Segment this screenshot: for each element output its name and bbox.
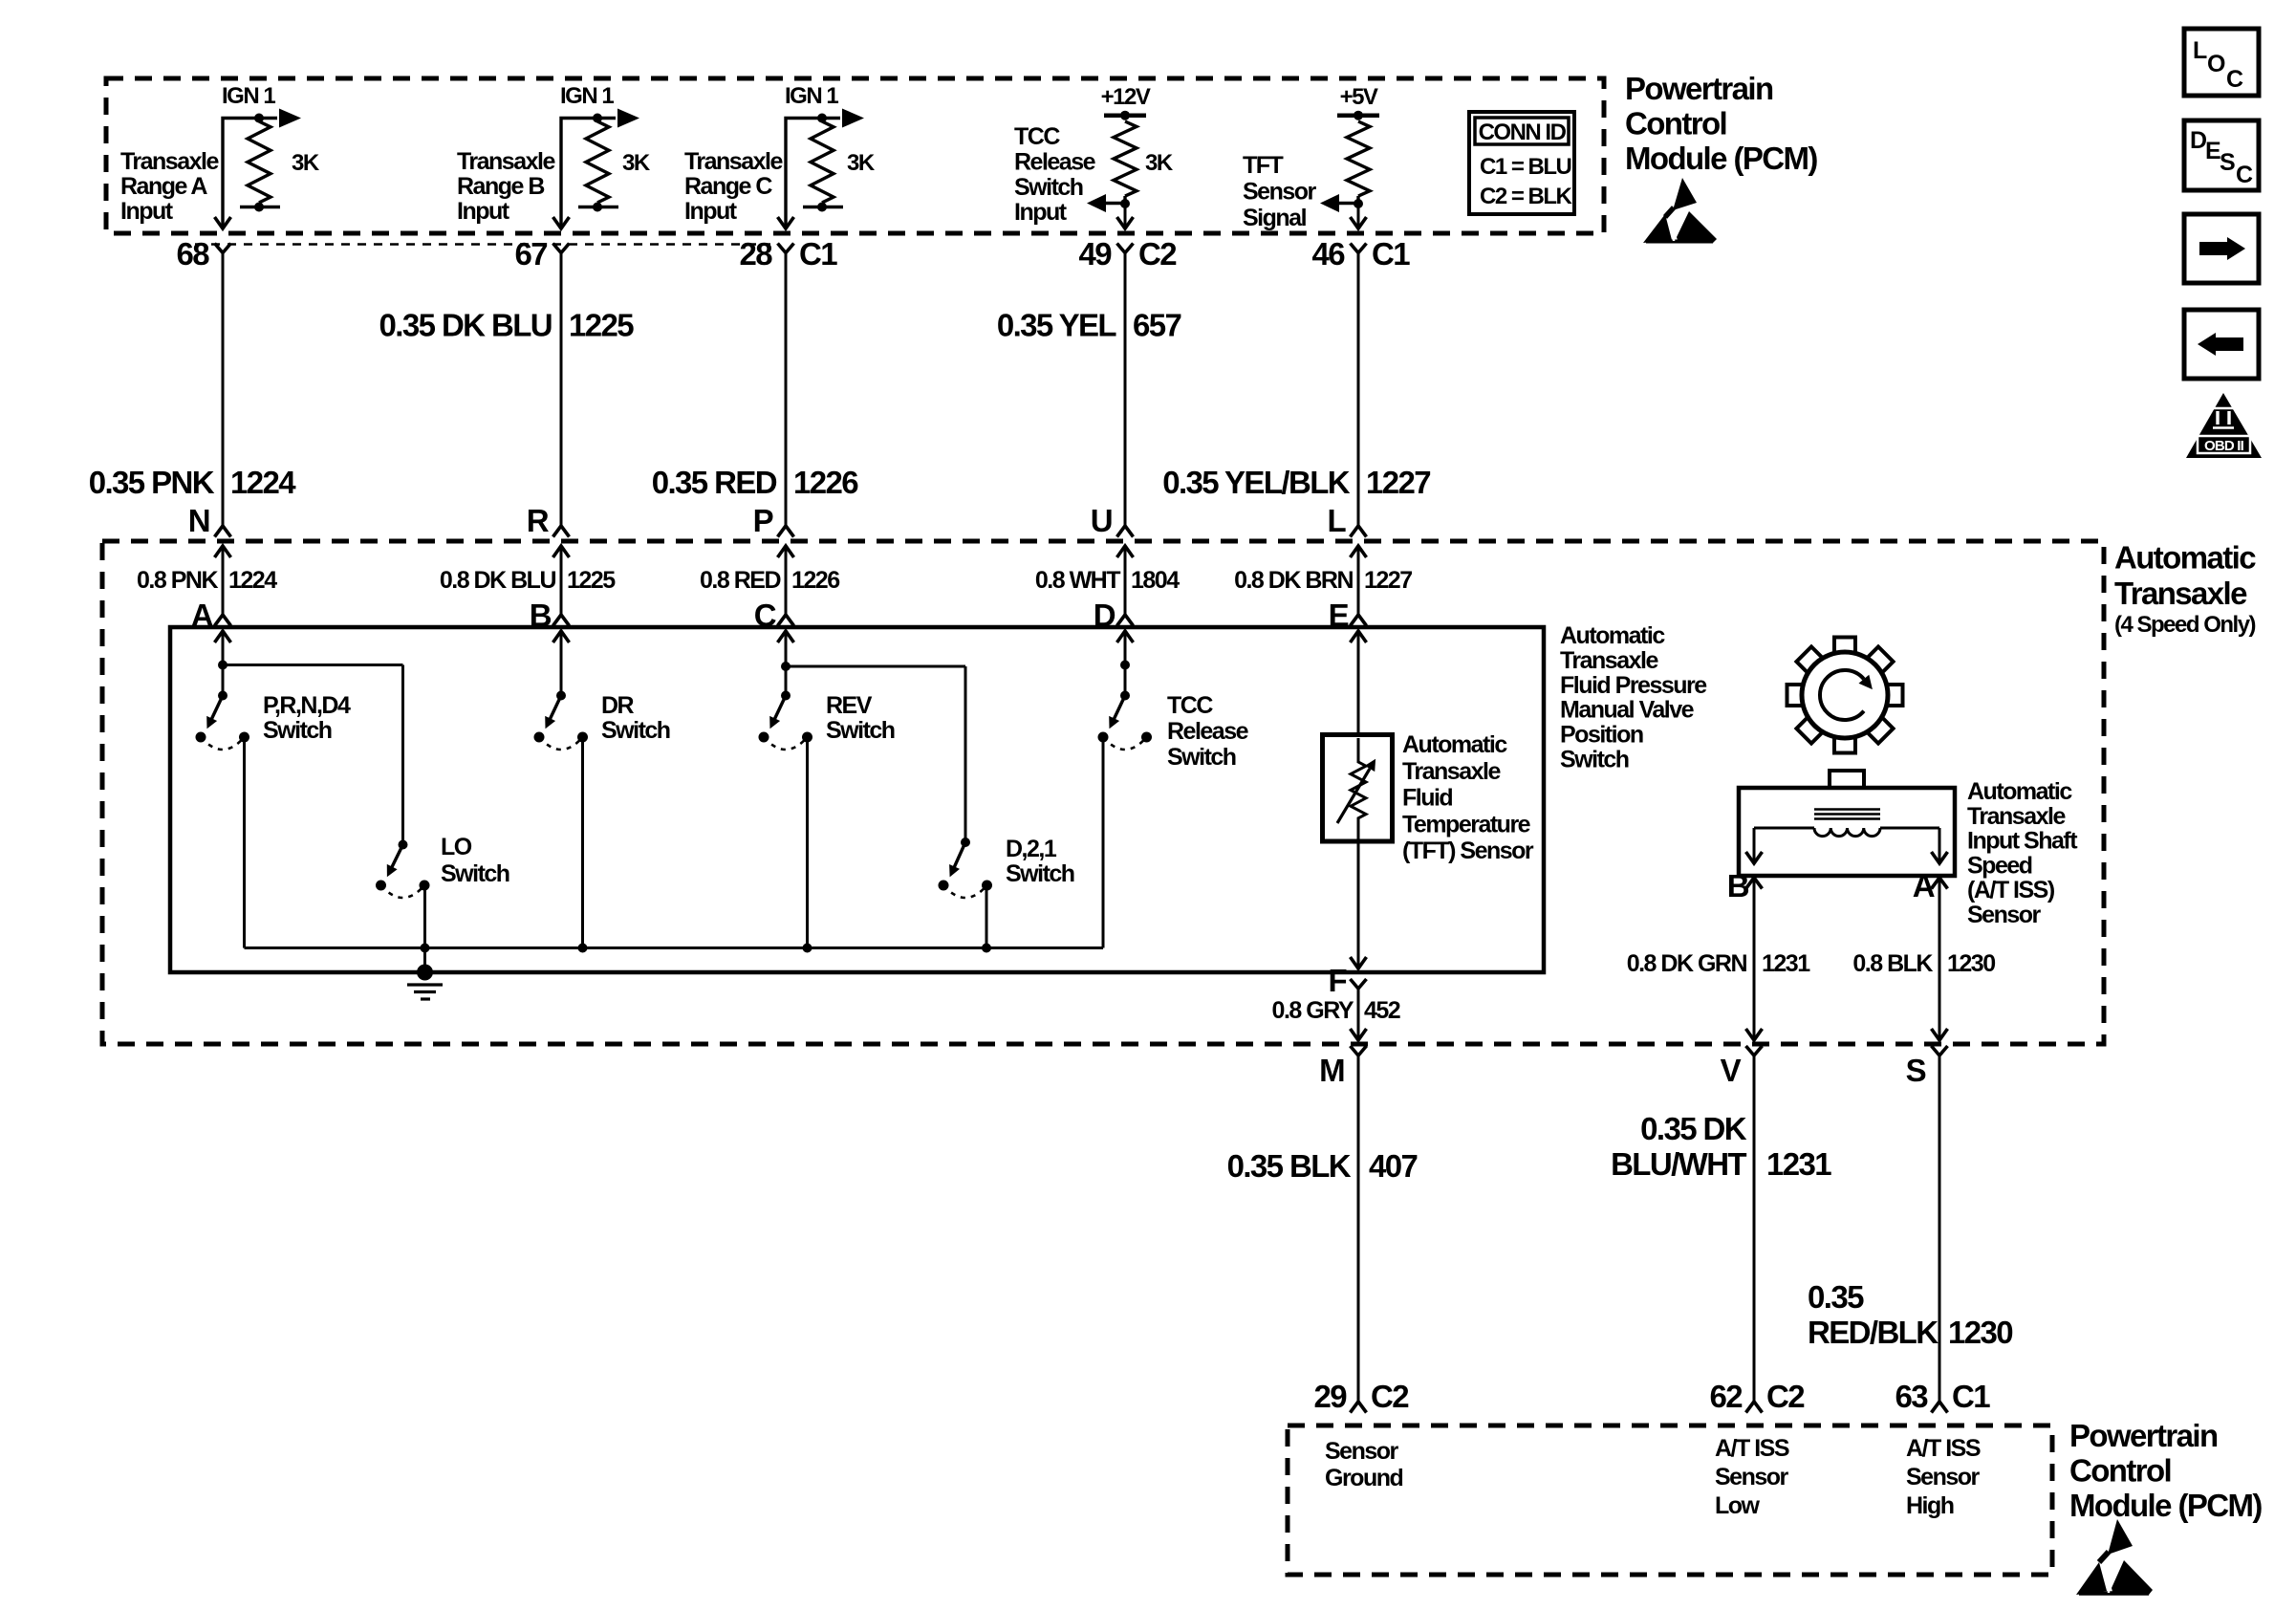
svg-text:TCC: TCC bbox=[1167, 692, 1213, 719]
switch TCC release bbox=[1120, 691, 1130, 701]
wire LO output to bus and ground bbox=[423, 885, 426, 972]
right-arrow icon box bbox=[2184, 214, 2259, 283]
svg-text:C: C bbox=[2226, 66, 2243, 93]
svg-text:Transaxle: Transaxle bbox=[120, 148, 219, 175]
junction dot col C branch bbox=[781, 662, 791, 671]
svg-text:1231: 1231 bbox=[1762, 950, 1810, 977]
svg-text:Sensor: Sensor bbox=[1967, 902, 2042, 928]
svg-text:TCC: TCC bbox=[1014, 123, 1060, 150]
svg-text:C1: C1 bbox=[1372, 236, 1410, 272]
svg-text:Switch: Switch bbox=[263, 717, 332, 744]
svg-text:Input Shaft: Input Shaft bbox=[1967, 828, 2078, 855]
svg-text:3K: 3K bbox=[847, 150, 876, 176]
pin 63 C1 fork bbox=[1932, 1402, 1948, 1413]
terminal fork at transaxle box (col 46) bbox=[1351, 526, 1367, 537]
svg-text:0.8 GRY: 0.8 GRY bbox=[1272, 997, 1354, 1024]
svg-text:1226: 1226 bbox=[791, 567, 839, 594]
switch D,2,1 bbox=[961, 838, 970, 847]
svg-text:1226: 1226 bbox=[793, 465, 858, 500]
wire IGN1 elbow col C bbox=[786, 119, 840, 228]
svg-text:Automatic: Automatic bbox=[1967, 778, 2072, 805]
svg-text:A/T ISS: A/T ISS bbox=[1715, 1435, 1789, 1462]
pin 28 C1 fork bbox=[778, 244, 794, 253]
wire branch to D,2,1 switch bbox=[786, 665, 965, 668]
svg-text:BLU/WHT: BLU/WHT bbox=[1611, 1146, 1746, 1182]
svg-text:Range B: Range B bbox=[457, 173, 544, 200]
terminal fork at transaxle box (col 49) bbox=[1117, 526, 1134, 537]
svg-text:LO: LO bbox=[441, 834, 472, 860]
svg-text:REV: REV bbox=[826, 692, 873, 719]
svg-text:C2: C2 bbox=[1138, 236, 1177, 272]
svg-text:3K: 3K bbox=[1145, 150, 1174, 176]
junction dot D21-bus bbox=[982, 944, 991, 953]
svg-text:C2 = BLK: C2 = BLK bbox=[1480, 184, 1573, 209]
arrow to TCC release switch input (left) bbox=[1105, 202, 1125, 205]
terminal fork at transaxle box (col 28) bbox=[778, 526, 794, 537]
svg-text:Transaxle: Transaxle bbox=[2114, 576, 2247, 611]
wire branch to LO switch bbox=[223, 664, 403, 666]
wire D,2,1 output to bus bbox=[986, 885, 988, 948]
svg-text:0.35 DK: 0.35 DK bbox=[1640, 1111, 1747, 1146]
wire down col E bbox=[1357, 204, 1360, 228]
pin 49 C2 fork bbox=[1117, 244, 1134, 253]
ground bus wire bbox=[245, 946, 1104, 949]
svg-text:Position: Position bbox=[1560, 722, 1643, 749]
svg-text:IGN 1: IGN 1 bbox=[785, 83, 838, 109]
junction dot col D bbox=[1120, 661, 1130, 670]
wire TFT down to F bbox=[1357, 838, 1360, 968]
junction dot col D bbox=[1120, 199, 1130, 208]
svg-text:D,2,1: D,2,1 bbox=[1006, 836, 1057, 862]
svg-text:28: 28 bbox=[739, 236, 772, 272]
svg-text:(TFT) Sensor: (TFT) Sensor bbox=[1402, 838, 1534, 864]
svg-text:0.35 PNK: 0.35 PNK bbox=[89, 465, 215, 500]
wire down col D bbox=[1124, 204, 1127, 228]
wire col A down to switch bbox=[222, 631, 225, 696]
svg-text:Fluid Pressure: Fluid Pressure bbox=[1560, 672, 1707, 699]
OBD II icon bbox=[2186, 393, 2262, 458]
svg-text:Switch: Switch bbox=[441, 860, 509, 887]
junction dot LO-bus bbox=[421, 944, 430, 953]
svg-text:+5V: +5V bbox=[1340, 84, 1378, 110]
svg-text:Sensor: Sensor bbox=[1906, 1464, 1981, 1490]
svg-text:P: P bbox=[753, 503, 773, 538]
svg-text:Switch: Switch bbox=[1014, 174, 1083, 201]
svg-text:IGN 1: IGN 1 bbox=[222, 83, 275, 109]
arrow up into switch assembly (col D) bbox=[1117, 631, 1134, 642]
svg-text:Control: Control bbox=[2069, 1453, 2171, 1489]
terminal bar +12V bbox=[1104, 113, 1146, 118]
svg-text:C1: C1 bbox=[1952, 1379, 1990, 1414]
arrow down at transaxle box exit (M) bbox=[1357, 1004, 1360, 1040]
svg-text:C: C bbox=[2236, 162, 2253, 188]
arrow to IGN1 feed col C bbox=[842, 109, 864, 128]
gear icon (input shaft) bbox=[1787, 638, 1903, 753]
TFT sensor box bbox=[1323, 735, 1393, 842]
svg-text:S: S bbox=[1906, 1053, 1926, 1088]
svg-text:Fluid: Fluid bbox=[1402, 785, 1452, 812]
svg-text:0.35 DK BLU: 0.35 DK BLU bbox=[379, 308, 552, 343]
junction dot col B bbox=[593, 114, 602, 123]
svg-text:C1: C1 bbox=[799, 236, 837, 272]
svg-text:0.35 BLK: 0.35 BLK bbox=[1227, 1148, 1352, 1184]
svg-text:452: 452 bbox=[1364, 997, 1400, 1024]
svg-text:Ground: Ground bbox=[1325, 1465, 1402, 1491]
svg-text:U: U bbox=[1091, 503, 1112, 538]
junction dot col A branch bbox=[218, 661, 227, 670]
svg-text:Sensor: Sensor bbox=[1325, 1438, 1399, 1465]
svg-text:1230: 1230 bbox=[1947, 950, 1995, 977]
arrow to IGN1 feed col B bbox=[617, 109, 639, 128]
svg-text:Temperature: Temperature bbox=[1402, 811, 1531, 838]
svg-text:Module (PCM): Module (PCM) bbox=[2069, 1488, 2262, 1523]
svg-text:TFT: TFT bbox=[1243, 152, 1284, 179]
svg-text:0.8 BLK: 0.8 BLK bbox=[1852, 950, 1933, 977]
svg-text:Transaxle: Transaxle bbox=[457, 148, 555, 175]
ISS pickup coil bbox=[1814, 828, 1880, 837]
svg-text:L: L bbox=[2193, 37, 2207, 64]
svg-text:O: O bbox=[2207, 51, 2225, 77]
svg-text:S: S bbox=[2220, 149, 2235, 176]
wire pin 49 down to transaxle bbox=[1124, 253, 1127, 527]
wire B down (0.8 DK GRN) bbox=[1753, 878, 1756, 1040]
svg-text:3K: 3K bbox=[622, 150, 651, 176]
svg-text:Speed: Speed bbox=[1967, 852, 2032, 879]
svg-text:0.8 DK BRN: 0.8 DK BRN bbox=[1234, 567, 1353, 594]
svg-text:Release: Release bbox=[1167, 718, 1249, 745]
svg-text:1230: 1230 bbox=[1948, 1315, 2012, 1350]
svg-text:0.35 RED: 0.35 RED bbox=[652, 465, 777, 500]
resistor 3K col D bbox=[1114, 121, 1137, 196]
pin 62 C2 fork bbox=[1746, 1402, 1763, 1413]
resistor 3K col B bbox=[586, 121, 609, 203]
svg-text:N: N bbox=[188, 503, 209, 538]
arrow down through PCM edge col B bbox=[553, 217, 570, 228]
A/T ISS sensor box bbox=[1739, 788, 1955, 876]
svg-text:DR: DR bbox=[601, 692, 635, 719]
wire pin 67 down to transaxle bbox=[560, 253, 563, 527]
ESD symbol - bottom PCM bbox=[2076, 1519, 2153, 1595]
arrow up into transaxle (col E) bbox=[1351, 546, 1367, 557]
svg-text:Switch: Switch bbox=[1167, 744, 1236, 771]
svg-text:C1 = BLU: C1 = BLU bbox=[1480, 154, 1571, 180]
ISS sensor mounting tab bbox=[1830, 771, 1864, 788]
pin 29 C2 fork bbox=[1351, 1402, 1367, 1413]
pin 67 fork bbox=[553, 244, 570, 253]
svg-text:63: 63 bbox=[1895, 1379, 1928, 1414]
svg-text:1231: 1231 bbox=[1766, 1146, 1831, 1182]
terminal fork at transaxle box (col 68) bbox=[215, 526, 231, 537]
wire TCC left contact down to bus end bbox=[1102, 737, 1105, 948]
svg-text:Release: Release bbox=[1014, 148, 1096, 175]
arrow down through PCM edge col A bbox=[215, 217, 231, 228]
svg-text:A: A bbox=[1913, 868, 1935, 903]
svg-text:Powertrain: Powertrain bbox=[2069, 1418, 2218, 1453]
svg-text:29: 29 bbox=[1313, 1379, 1347, 1414]
svg-text:L: L bbox=[1327, 503, 1346, 538]
ground symbol bbox=[417, 965, 433, 981]
wire IGN1 elbow col B bbox=[561, 119, 616, 228]
svg-text:Switch: Switch bbox=[826, 717, 895, 744]
arrow up into transaxle (col B) bbox=[553, 546, 570, 557]
wire col C down to switch bbox=[785, 631, 788, 696]
svg-text:Switch: Switch bbox=[601, 717, 670, 744]
wire IGN1 elbow col A bbox=[223, 119, 277, 228]
junction dot col E bbox=[1354, 199, 1363, 208]
switch assembly box bbox=[170, 627, 1544, 972]
arrow down through PCM edge col C bbox=[778, 217, 794, 228]
svg-text:Range A: Range A bbox=[120, 173, 207, 200]
terminal bar +5V bbox=[1337, 113, 1379, 118]
svg-text:B: B bbox=[1727, 868, 1749, 903]
svg-text:(4 Speed Only): (4 Speed Only) bbox=[2114, 612, 2256, 638]
svg-text:0.35 YEL: 0.35 YEL bbox=[997, 308, 1117, 343]
arrow up into switch assembly (col C) bbox=[778, 631, 794, 642]
DESC icon box bbox=[2184, 120, 2259, 190]
wire col B down to switch bbox=[560, 631, 563, 696]
thermistor symbol TFT bbox=[1351, 738, 1366, 838]
svg-text:49: 49 bbox=[1078, 236, 1112, 272]
ISS internal wires to pins bbox=[1754, 827, 1814, 830]
arrow to IGN1 feed col A bbox=[279, 109, 301, 128]
svg-text:CONN ID: CONN ID bbox=[1479, 120, 1567, 145]
wire pin 28 down to transaxle bbox=[785, 253, 788, 527]
PCM box (top) - dashed outline bbox=[106, 78, 1604, 233]
CONN ID table bbox=[1469, 112, 1574, 214]
svg-text:Range C: Range C bbox=[684, 173, 772, 200]
svg-text:A/T ISS: A/T ISS bbox=[1906, 1435, 1981, 1462]
svg-text:1224: 1224 bbox=[228, 567, 277, 594]
svg-text:+12V: +12V bbox=[1101, 84, 1151, 110]
resistor 3K col A bbox=[248, 121, 271, 203]
svg-text:R: R bbox=[527, 503, 550, 538]
svg-text:Control: Control bbox=[1625, 106, 1726, 141]
svg-text:68: 68 bbox=[176, 236, 209, 272]
svg-text:D: D bbox=[2190, 127, 2206, 154]
arrow up into switch assembly (col A) bbox=[215, 631, 231, 642]
svg-text:V: V bbox=[1721, 1053, 1742, 1088]
svg-text:C2: C2 bbox=[1766, 1379, 1805, 1414]
wire DR output to bus bbox=[581, 737, 584, 948]
arrow up into transaxle (col C) bbox=[778, 546, 794, 557]
LOC icon box bbox=[2184, 29, 2259, 96]
arrow up into switch assembly (col B) bbox=[553, 631, 570, 642]
connector C1 boundary (thin dashed line) bbox=[195, 243, 770, 246]
svg-text:Module (PCM): Module (PCM) bbox=[1625, 141, 1817, 176]
arrow up into switch assembly (col E) bbox=[1351, 631, 1367, 642]
svg-text:P,R,N,D4: P,R,N,D4 bbox=[263, 692, 351, 719]
svg-text:1225: 1225 bbox=[567, 567, 616, 594]
svg-text:Automatic: Automatic bbox=[1560, 622, 1665, 649]
terminal fork at transaxle box (col 67) bbox=[553, 526, 570, 537]
svg-text:C2: C2 bbox=[1371, 1379, 1409, 1414]
switch DR bbox=[556, 691, 566, 701]
rotation arrow inside gear bbox=[1820, 670, 1864, 720]
svg-text:Input: Input bbox=[1014, 199, 1068, 226]
svg-text:Input: Input bbox=[684, 198, 738, 225]
svg-text:High: High bbox=[1906, 1492, 1954, 1519]
junction dot REV-bus bbox=[803, 944, 812, 953]
svg-text:Transaxle: Transaxle bbox=[1402, 758, 1501, 785]
svg-text:62: 62 bbox=[1709, 1379, 1743, 1414]
svg-text:0.8 RED: 0.8 RED bbox=[700, 567, 780, 594]
svg-text:46: 46 bbox=[1311, 236, 1345, 272]
pin 68 fork bbox=[215, 244, 231, 253]
svg-text:1224: 1224 bbox=[230, 465, 296, 500]
svg-text:F: F bbox=[1328, 963, 1346, 998]
arrow to TFT sensor signal (left) bbox=[1338, 202, 1358, 205]
svg-text:Transaxle: Transaxle bbox=[1560, 647, 1658, 674]
wire pin 68 down to transaxle bbox=[222, 253, 225, 527]
arrow up into transaxle (col D) bbox=[1117, 546, 1134, 557]
junction dot DR-bus bbox=[578, 944, 588, 953]
svg-text:(A/T ISS): (A/T ISS) bbox=[1967, 877, 2055, 903]
svg-text:Input: Input bbox=[457, 198, 510, 225]
Automatic Transaxle box - dashed outline bbox=[102, 541, 2104, 1044]
arrow up into transaxle (col A) bbox=[215, 546, 231, 557]
svg-text:OBD II: OBD II bbox=[2204, 438, 2244, 454]
svg-text:0.8 DK GRN: 0.8 DK GRN bbox=[1627, 950, 1747, 977]
wire col D down to switch bbox=[1124, 631, 1127, 696]
svg-text:Switch: Switch bbox=[1560, 747, 1629, 773]
svg-text:E: E bbox=[2205, 138, 2220, 164]
wire V down to PCM bbox=[1753, 1055, 1756, 1402]
svg-text:1225: 1225 bbox=[569, 308, 634, 343]
svg-text:Low: Low bbox=[1715, 1492, 1761, 1519]
ESD symbol - top PCM bbox=[1643, 178, 1717, 243]
svg-text:Switch: Switch bbox=[1006, 860, 1074, 887]
svg-text:RED/BLK: RED/BLK bbox=[1808, 1315, 1939, 1350]
ISS core laminations bbox=[1814, 808, 1880, 811]
pin 46 C1 fork bbox=[1351, 244, 1367, 253]
svg-text:0.8 WHT: 0.8 WHT bbox=[1035, 567, 1120, 594]
svg-text:1227: 1227 bbox=[1364, 567, 1412, 594]
svg-text:Automatic: Automatic bbox=[1402, 731, 1507, 758]
svg-text:Powertrain: Powertrain bbox=[1625, 71, 1773, 106]
svg-text:Input: Input bbox=[120, 198, 174, 225]
svg-text:Automatic: Automatic bbox=[2114, 540, 2256, 576]
switch REV bbox=[781, 691, 791, 701]
svg-text:Manual Valve: Manual Valve bbox=[1560, 697, 1695, 724]
switch P,R,N,D4 bbox=[218, 691, 227, 701]
svg-text:407: 407 bbox=[1369, 1148, 1418, 1184]
switch LO bbox=[399, 840, 408, 850]
svg-text:1804: 1804 bbox=[1131, 567, 1180, 594]
svg-text:0.35: 0.35 bbox=[1808, 1279, 1864, 1315]
svg-text:Sensor: Sensor bbox=[1243, 178, 1317, 205]
resistor 3K col C bbox=[811, 121, 834, 203]
PCM box (bottom) - dashed outline bbox=[1288, 1425, 2052, 1575]
svg-text:M: M bbox=[1319, 1053, 1344, 1088]
svg-text:0.35 YEL/BLK: 0.35 YEL/BLK bbox=[1162, 465, 1351, 500]
svg-text:0.8 PNK: 0.8 PNK bbox=[137, 567, 218, 594]
svg-text:67: 67 bbox=[514, 236, 547, 272]
wire S down to PCM bbox=[1939, 1055, 1941, 1402]
svg-text:3K: 3K bbox=[292, 150, 320, 176]
left-arrow icon box bbox=[2184, 310, 2259, 379]
wire M down to PCM bbox=[1357, 1055, 1360, 1402]
wire col E through TFT sensor bbox=[1357, 631, 1360, 735]
svg-text:Transaxle: Transaxle bbox=[684, 148, 783, 175]
svg-text:Sensor: Sensor bbox=[1715, 1464, 1789, 1490]
wire A down (0.8 BLK) bbox=[1939, 878, 1941, 1040]
svg-text:657: 657 bbox=[1133, 308, 1181, 343]
wire REV output to bus bbox=[806, 737, 809, 948]
svg-text:Signal: Signal bbox=[1243, 205, 1307, 231]
resistor col E (TFT pull-up) bbox=[1347, 121, 1370, 196]
junction dot col A bbox=[254, 114, 264, 123]
svg-text:Transaxle: Transaxle bbox=[1967, 803, 2066, 830]
junction dot col C bbox=[817, 114, 827, 123]
svg-text:0.8 DK BLU: 0.8 DK BLU bbox=[440, 567, 556, 594]
wire pin 46 down to transaxle bbox=[1357, 253, 1360, 527]
svg-text:1227: 1227 bbox=[1366, 465, 1430, 500]
wire P,R,N,D4 output to bus bbox=[243, 737, 246, 948]
svg-text:IGN 1: IGN 1 bbox=[560, 83, 614, 109]
